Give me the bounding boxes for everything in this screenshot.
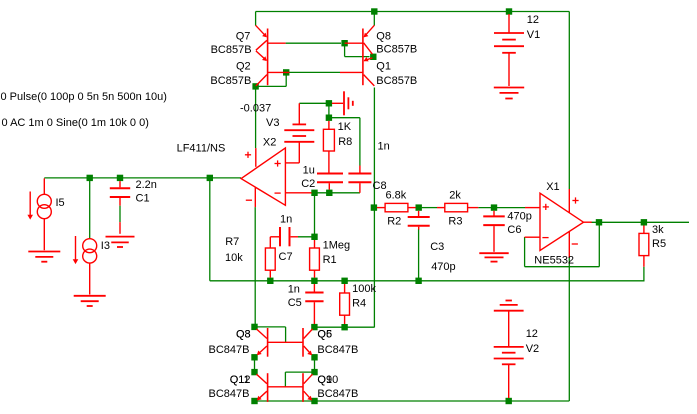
svg-text:R8: R8 [338, 136, 352, 148]
transistor Q8 [345, 25, 375, 57]
capacitor C8 [348, 166, 371, 193]
wire Q1 collector to R2 node [373, 88, 375, 328]
op-amp X1 NE5532 [525, 189, 592, 258]
resistor R5 3k [639, 226, 649, 267]
wire R8 node to C8 top [329, 118, 360, 166]
svg-text:12: 12 [526, 328, 538, 340]
svg-text:R4: R4 [352, 297, 366, 309]
svg-text:2k: 2k [449, 189, 461, 201]
wire Q2 diode connect [256, 72, 286, 86]
wire right inter-row stub [314, 357, 316, 372]
wire X2 output down [209, 178, 211, 281]
wire R2-R3 link [422, 207, 437, 209]
svg-text:C6: C6 [507, 224, 521, 236]
node R4 top junction [341, 278, 347, 284]
svg-text:R1: R1 [323, 254, 337, 266]
capacitor C5 1n [305, 284, 323, 324]
ground I3 [74, 296, 106, 306]
node R7 bottom junction [267, 278, 273, 284]
node Q7/Q8 base junction [341, 40, 347, 46]
node Q8b collector junction [251, 324, 257, 330]
arrow I3 [73, 236, 79, 264]
wire top supply rail [256, 11, 570, 13]
capacitor C7 1n [280, 227, 298, 246]
svg-text:I3: I3 [101, 240, 110, 252]
node top rail V1 junction [506, 8, 512, 14]
svg-text:I5: I5 [56, 197, 65, 209]
svg-text:BC857B: BC857B [376, 44, 417, 56]
svg-text:10k: 10k [225, 252, 243, 264]
svg-text:BC857B: BC857B [210, 75, 251, 87]
node R3/C6 junction [491, 204, 497, 210]
svg-text:-0.037: -0.037 [240, 103, 271, 115]
node X2 output junction [207, 175, 213, 181]
svg-text:BC847B: BC847B [317, 344, 358, 356]
svg-text:Q11: Q11 [230, 374, 250, 386]
wire Q8 diode connect [345, 43, 370, 56]
voltage source V1 12 [494, 14, 524, 86]
node R2 left junction [371, 204, 377, 210]
capacitor C6 470p [483, 211, 505, 252]
node I3 junction [87, 175, 93, 181]
svg-text:12: 12 [527, 14, 539, 26]
transistor Q7 [256, 25, 286, 57]
resistor R4 100k [340, 284, 350, 327]
ground C1 [106, 237, 135, 247]
svg-text:C7: C7 [279, 251, 293, 263]
svg-text:V1: V1 [527, 29, 540, 41]
transistor Q3/Q8b [257, 328, 304, 357]
transistor Q9/Q10 [303, 373, 313, 402]
wire X2 inverting net [312, 192, 360, 194]
resistor R1 1Meg [310, 240, 320, 278]
svg-text:0 AC 1m 0 Sine(0 1m 10k 0 0): 0 AC 1m 0 Sine(0 1m 10k 0 0) [2, 117, 149, 129]
resistor R7 10k [265, 237, 279, 278]
node R8 top junction [326, 115, 332, 121]
capacitor C2 1u [317, 173, 343, 189]
resistor R3 2k [437, 203, 478, 211]
wire X2 V- supply net [254, 207, 256, 327]
wire R5 bottom link [643, 267, 645, 281]
wire X1 V- down [568, 258, 570, 401]
svg-text:6.8k: 6.8k [386, 189, 407, 201]
node Q12 collector junction [251, 369, 257, 375]
svg-text:R2: R2 [387, 216, 401, 228]
svg-text:470p: 470p [431, 261, 455, 273]
wire main mid bus [210, 280, 645, 282]
svg-text:X2: X2 [263, 136, 276, 148]
wire right-side V+ drop [568, 12, 570, 190]
ground I5 [28, 252, 60, 262]
wire C5/Q6 bottom link [314, 326, 374, 328]
svg-text:BC857B: BC857B [211, 44, 252, 56]
node X2 inverting junction [311, 190, 317, 196]
node Q2 base junction [283, 69, 289, 75]
wire R3 to X1 link [478, 207, 525, 209]
svg-text:C1: C1 [136, 192, 150, 204]
voltage source V2 12 [494, 301, 524, 399]
node R1/C5 junction [311, 278, 317, 284]
node R4 bottom junction [341, 324, 347, 330]
svg-text:3k: 3k [652, 224, 664, 236]
wire Q7 emitter stub [255, 12, 257, 26]
svg-text:2.2n: 2.2n [136, 179, 157, 191]
node R5 top junction [641, 219, 647, 225]
node R2 right junction [416, 204, 422, 210]
wire Q8b diode connect [255, 327, 286, 342]
svg-text:NE5532: NE5532 [534, 254, 574, 266]
ground V3 sideways [332, 91, 353, 115]
wire Q10 diode connect [285, 372, 314, 387]
current source I5 [37, 178, 51, 250]
svg-text:BC847B: BC847B [209, 344, 250, 356]
wire inverting net down to C7/R1 node [314, 193, 316, 237]
svg-text:1n: 1n [288, 284, 300, 296]
node C3 bottom junction [415, 278, 421, 284]
node C7/R1 junction [311, 234, 317, 240]
wire C3 bottom link [418, 229, 420, 281]
node Q12 emitter junction [251, 398, 257, 404]
svg-text:1u: 1u [303, 164, 315, 176]
node Q6 emitter junction [311, 354, 317, 360]
node Q2 collector junction [252, 83, 258, 89]
wire Q2-Q1 base link [290, 71, 341, 73]
svg-text:Q3: Q3 [236, 329, 251, 341]
resistor R2 6.8k [377, 203, 416, 211]
svg-text:1n: 1n [378, 140, 390, 152]
svg-text:BC847B: BC847B [209, 388, 250, 400]
svg-text:Q9: Q9 [317, 374, 332, 386]
wire C7 right link [298, 236, 315, 238]
wire Q8 emitter stub [373, 12, 375, 26]
wire I3 top lead [89, 178, 91, 239]
svg-text:Q5: Q5 [317, 329, 332, 341]
svg-text:C8: C8 [373, 180, 387, 192]
node X1 output junction [596, 219, 602, 225]
wire X2 V+ supply net [255, 86, 257, 148]
transistor Q2 [256, 51, 290, 86]
node V2 bottom junction [506, 398, 512, 404]
capacitor C1 2.2n [110, 181, 130, 234]
svg-text:Q2: Q2 [236, 61, 251, 73]
svg-text:1n: 1n [280, 214, 292, 226]
node top rail Q8 junction [371, 8, 377, 14]
transistor Q12 [257, 373, 304, 402]
wire Q7-Q8 base link [286, 42, 341, 44]
svg-text:C2: C2 [301, 178, 315, 190]
svg-text:R3: R3 [448, 216, 462, 228]
resistor R8 1K [323, 121, 334, 173]
voltage source V3 -0.037 [284, 103, 314, 163]
svg-text:C5: C5 [288, 297, 302, 309]
wire input row [44, 177, 241, 179]
node Q10 emitter junction [311, 398, 317, 404]
node Q8b emitter junction [251, 354, 257, 360]
svg-text:470p: 470p [507, 210, 531, 222]
node Q10 collector junction [311, 369, 317, 375]
svg-text:R7: R7 [225, 236, 239, 248]
capacitor C3 470p [408, 211, 430, 230]
transistor Q6 [303, 328, 313, 357]
op-amp X2 LF411 [241, 148, 311, 207]
ground V1 [494, 88, 524, 99]
wire V3 top to ground node [299, 102, 329, 104]
svg-text:V2: V2 [526, 343, 539, 355]
ground C6 [479, 253, 508, 261]
svg-text:R5: R5 [652, 238, 666, 250]
wire X1 feedback [525, 222, 600, 266]
svg-text:BC857B: BC857B [376, 75, 417, 87]
svg-text:BC847B: BC847B [317, 388, 358, 400]
svg-text:LF411/NS: LF411/NS [177, 142, 226, 154]
svg-text:C3: C3 [430, 241, 444, 253]
svg-text:100k: 100k [352, 283, 376, 295]
transistor Q1 [340, 57, 374, 86]
node Q6 collector junction [311, 324, 317, 330]
svg-text:X1: X1 [546, 181, 559, 193]
wire ground node to R8 node [328, 103, 330, 117]
svg-text:0 Pulse(0 100p 0 5n 5n 500n 10: 0 Pulse(0 100p 0 5n 5n 500n 10u) [1, 91, 167, 103]
wire bottom rail [255, 400, 570, 402]
node Q8 collector vertex [370, 54, 376, 60]
svg-text:Q1: Q1 [376, 61, 391, 73]
svg-text:Q7: Q7 [236, 30, 251, 42]
svg-text:V3: V3 [266, 117, 279, 129]
wire left inter-row stub [254, 357, 256, 372]
svg-text:1Meg: 1Meg [323, 240, 351, 252]
svg-text:1K: 1K [338, 121, 352, 133]
svg-text:Q8: Q8 [376, 30, 391, 42]
node C1 junction [117, 175, 123, 181]
node C2 bottom junction [326, 190, 332, 196]
current source I3 [83, 239, 97, 295]
arrow I5 [27, 192, 33, 220]
node V3/ground junction [326, 100, 332, 106]
wire X1 output [591, 221, 690, 223]
